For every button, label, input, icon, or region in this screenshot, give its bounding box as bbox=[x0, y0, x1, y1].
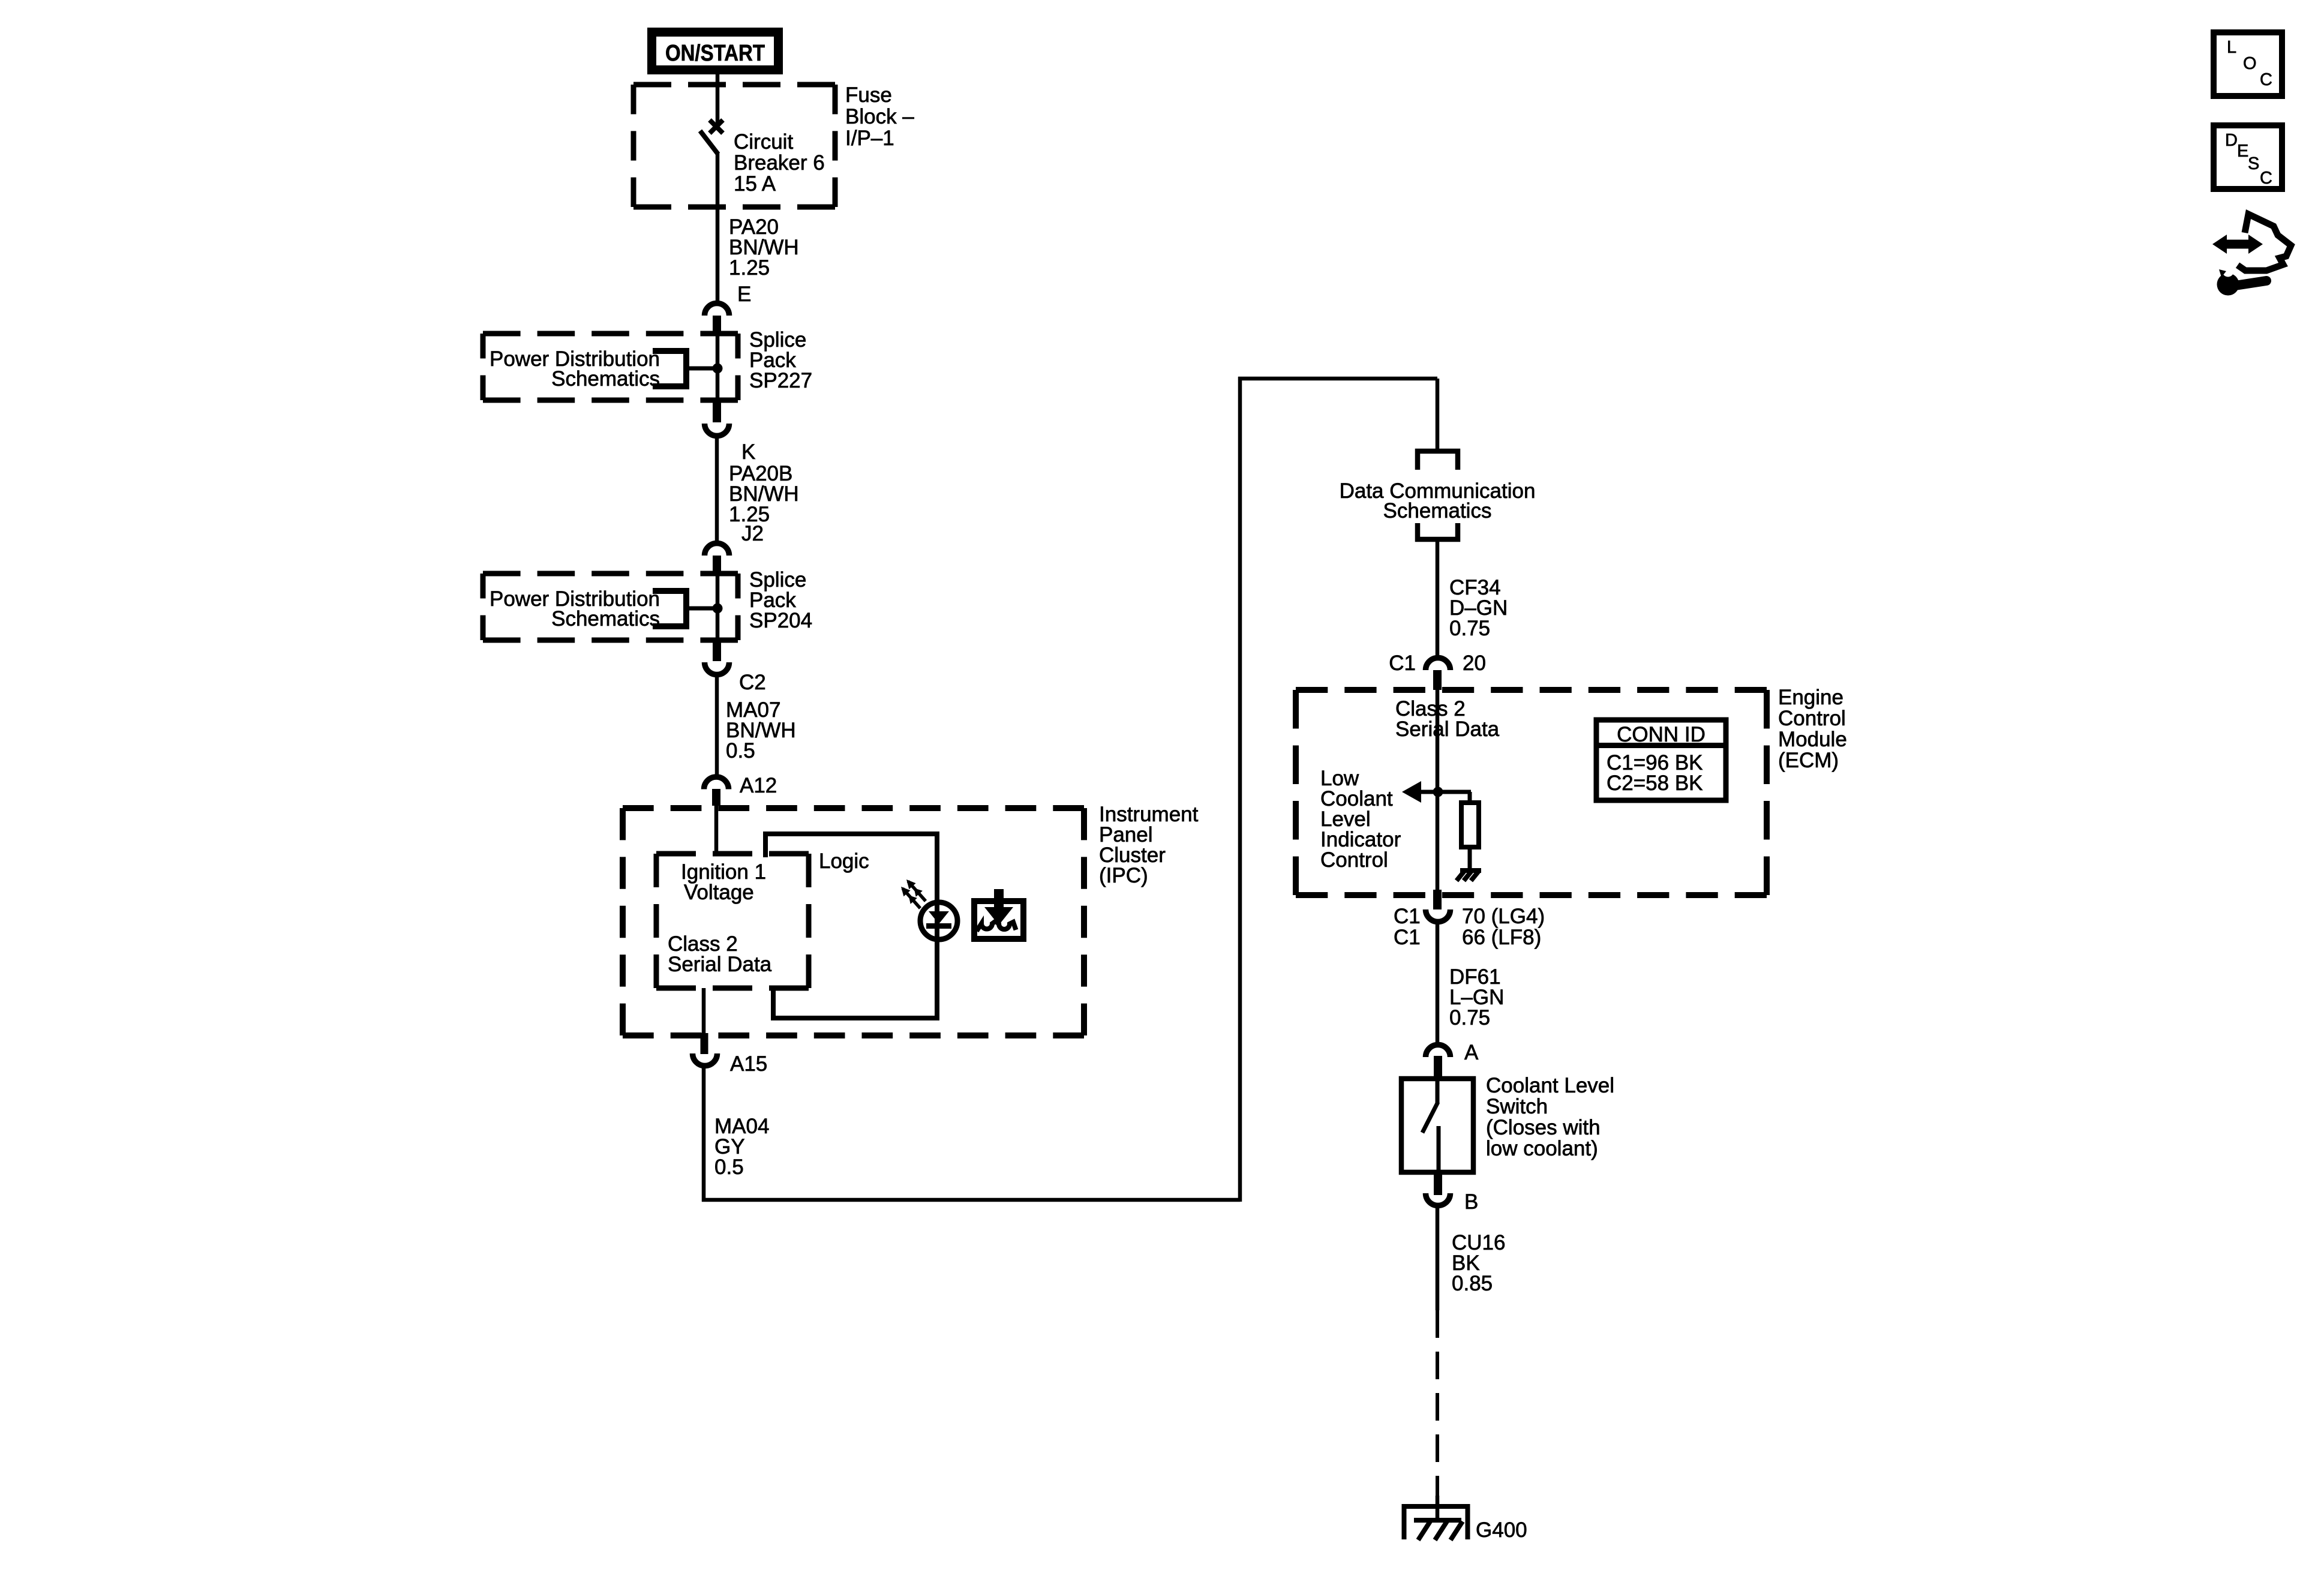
ECM internal control arrow bbox=[1402, 781, 1471, 803]
wire bottom horizontal run bbox=[702, 1198, 1240, 1202]
wire C2 to A12 bbox=[715, 677, 719, 776]
wire through SP204 bbox=[716, 574, 720, 640]
LED emission arrows bbox=[901, 879, 926, 908]
svg-text:C: C bbox=[2260, 169, 2272, 188]
fuse block dashed box bbox=[633, 85, 835, 207]
svg-text:Module: Module bbox=[1778, 728, 1847, 751]
label Data Communication Schematics bbox=[1340, 479, 1536, 523]
connector A15 arc bbox=[693, 1052, 768, 1076]
connector A12 arc bbox=[704, 774, 777, 797]
ground G400 hatches bbox=[1418, 1521, 1463, 1540]
svg-text:C2=58 BK: C2=58 BK bbox=[1607, 772, 1703, 795]
svg-text:(IPC): (IPC) bbox=[1099, 864, 1148, 887]
icon wrench bbox=[2217, 266, 2267, 296]
junction dot SP227 bbox=[713, 364, 723, 374]
connector A terminal bar bbox=[1434, 1056, 1442, 1077]
reference label Power Distribution Schematics (SP204) bbox=[490, 587, 660, 631]
circuit breaker label Circuit Breaker 6 15 A bbox=[734, 130, 825, 196]
wire label MA04 GY 0.5 bbox=[714, 1115, 769, 1179]
reference label Power Distribution Schematics (SP227) bbox=[490, 347, 660, 391]
svg-text:C1: C1 bbox=[1394, 926, 1421, 949]
wire K to J2 bbox=[715, 437, 719, 541]
ground G400 bar bbox=[1414, 1518, 1461, 1523]
label Splice Pack SP227 bbox=[749, 328, 812, 392]
label G400 bbox=[1476, 1518, 1527, 1542]
svg-text:Schematics: Schematics bbox=[1383, 499, 1492, 523]
engine control module ECM dashed box bbox=[1296, 690, 1767, 895]
svg-text:K: K bbox=[741, 440, 755, 464]
connector C1 pin 70 terminal bar bbox=[1433, 890, 1442, 909]
ECM internal wire vertical bbox=[1436, 690, 1440, 891]
connector J2 arc bbox=[705, 522, 764, 556]
connector E terminal bar bbox=[713, 316, 721, 335]
junction dot SP204 bbox=[713, 604, 723, 614]
svg-text:Fuse: Fuse bbox=[845, 83, 892, 107]
svg-text:Breaker 6: Breaker 6 bbox=[734, 151, 825, 175]
svg-text:(Closes with: (Closes with bbox=[1486, 1116, 1601, 1139]
LED indicator circle bbox=[920, 902, 957, 939]
connector C2 terminal bar bbox=[713, 640, 721, 661]
wire A12 into IPC inner box bbox=[714, 805, 719, 856]
switch position label ON/START box bbox=[652, 32, 779, 70]
pin function label Class 2 Serial Data (ECM) bbox=[1395, 697, 1500, 741]
wire right vertical riser bbox=[1238, 377, 1242, 1202]
svg-text:Circuit: Circuit bbox=[734, 130, 793, 154]
icon double arrow bbox=[2212, 235, 2263, 254]
off-page connector Data Communication Schematics bbox=[1418, 451, 1458, 539]
wire ECM to coolant level switch bbox=[1436, 923, 1440, 1044]
circuit breaker CB6 contact X bbox=[710, 120, 723, 133]
svg-text:G400: G400 bbox=[1476, 1518, 1527, 1542]
wire A15 down bbox=[702, 1068, 706, 1202]
label Splice Pack SP204 bbox=[749, 568, 812, 632]
LED cathode bar bbox=[926, 923, 951, 929]
ground G400 stem bbox=[1436, 1496, 1440, 1523]
label C1 C1 (ECM output pins) bbox=[1394, 905, 1421, 949]
bracket to SP227 splice bbox=[653, 348, 717, 389]
circuit breaker CB6 blade bbox=[700, 131, 718, 154]
wire label CF34 D-GN 0.75 bbox=[1449, 576, 1508, 640]
wire Class2 out of IPC inner box bbox=[702, 988, 706, 1034]
svg-text:1.25: 1.25 bbox=[729, 256, 770, 280]
svg-text:66 (LF8): 66 (LF8) bbox=[1462, 926, 1541, 949]
coolant level switch box bbox=[1401, 1079, 1473, 1172]
splice pack SP204 dashed box bbox=[483, 574, 738, 640]
svg-text:0.5: 0.5 bbox=[714, 1155, 744, 1179]
label Coolant Level Switch bbox=[1486, 1074, 1614, 1160]
svg-text:Control: Control bbox=[1778, 707, 1846, 730]
svg-text:Logic: Logic bbox=[819, 849, 869, 873]
svg-text:I/P–1: I/P–1 bbox=[845, 127, 894, 150]
wire B down solid bbox=[1436, 1208, 1440, 1310]
resistor to ground stub bbox=[1468, 847, 1472, 871]
svg-text:C1: C1 bbox=[1389, 652, 1416, 675]
telltale icon coolant wave bbox=[977, 921, 1016, 932]
label Logic bbox=[819, 849, 869, 873]
icon part outline bbox=[2238, 214, 2291, 271]
wire label MA07 BN/WH 0.5 bbox=[726, 698, 796, 763]
svg-text:15 A: 15 A bbox=[734, 172, 776, 196]
low coolant telltale icon box bbox=[974, 901, 1023, 939]
svg-text:SP227: SP227 bbox=[749, 369, 812, 392]
icon LOC box bbox=[2214, 32, 2282, 96]
wire label DF61 L-GN 0.75 bbox=[1449, 965, 1504, 1029]
svg-text:D: D bbox=[2225, 131, 2238, 150]
pin function label Low Coolant Level Indicator Control bbox=[1320, 767, 1401, 872]
label Engine Control Module (ECM) bbox=[1778, 686, 1847, 772]
label 70 (LG4) 66 (LF8) bbox=[1462, 905, 1545, 949]
connector J2 terminal bar bbox=[713, 556, 721, 575]
connector C2 arc bbox=[705, 662, 766, 694]
wire label PA20B BN/WH 1.25 bbox=[729, 462, 799, 526]
wire top horizontal run bbox=[1238, 377, 1437, 381]
bracket to SP204 splice bbox=[653, 588, 717, 629]
svg-text:SP204: SP204 bbox=[749, 609, 812, 632]
icon DESC box bbox=[2214, 125, 2282, 189]
telltale icon arrow bbox=[984, 889, 1013, 925]
svg-text:E: E bbox=[2237, 142, 2248, 161]
svg-text:C: C bbox=[2260, 70, 2272, 89]
IPC inner dashed box bbox=[656, 854, 809, 988]
svg-text:C1: C1 bbox=[1394, 905, 1421, 928]
connector A arc bbox=[1426, 1041, 1479, 1064]
svg-text:J2: J2 bbox=[741, 522, 764, 545]
connector A12 terminal bar bbox=[712, 789, 720, 806]
wire from ON/START to circuit breaker bbox=[716, 74, 720, 124]
svg-text:A12: A12 bbox=[740, 774, 777, 797]
svg-text:Block –: Block – bbox=[845, 105, 914, 128]
switch upper contact stub bbox=[1436, 1077, 1440, 1103]
label Instrument Panel Cluster (IPC) bbox=[1099, 803, 1199, 887]
fuse block label Fuse Block - I/P-1 bbox=[845, 83, 914, 150]
svg-text:Engine: Engine bbox=[1778, 686, 1843, 709]
wire B down dashed to ground bbox=[1436, 1310, 1439, 1498]
svg-text:A15: A15 bbox=[730, 1052, 767, 1076]
wire through SP227 bbox=[716, 334, 720, 400]
svg-text:20: 20 bbox=[1463, 652, 1486, 675]
splice pack SP227 dashed box bbox=[483, 334, 738, 400]
svg-text:(ECM): (ECM) bbox=[1778, 749, 1839, 772]
connector C1 pin 70 arc bbox=[1426, 909, 1451, 922]
svg-text:Switch: Switch bbox=[1486, 1095, 1548, 1118]
wire DCS to C1-20 bbox=[1436, 539, 1440, 658]
switch blade bbox=[1422, 1102, 1438, 1133]
connector E arc bbox=[705, 283, 752, 316]
svg-text:E: E bbox=[737, 283, 751, 306]
connector B terminal bar bbox=[1434, 1175, 1442, 1195]
connector C1 pin 20 terminal bar bbox=[1433, 670, 1442, 690]
ground G400 bracket bbox=[1404, 1506, 1468, 1539]
pin function label Class 2 Serial Data (IPC) bbox=[668, 932, 772, 976]
connector B arc bbox=[1426, 1190, 1479, 1214]
pull-up resistor bbox=[1461, 803, 1479, 847]
svg-text:O: O bbox=[2243, 54, 2257, 73]
svg-text:A: A bbox=[1464, 1041, 1479, 1064]
connector C1 pin 20 arc bbox=[1389, 652, 1486, 675]
svg-text:Serial Data: Serial Data bbox=[1395, 718, 1500, 741]
connector K terminal bar bbox=[713, 400, 721, 422]
connector K arc bbox=[705, 424, 756, 464]
LED diode triangle bbox=[929, 911, 949, 924]
ECM chassis ground bbox=[1457, 870, 1481, 881]
svg-text:Schematics: Schematics bbox=[551, 607, 660, 631]
logic block outline bbox=[765, 834, 937, 1018]
svg-text:low coolant): low coolant) bbox=[1486, 1137, 1598, 1160]
svg-text:ON/START: ON/START bbox=[665, 41, 765, 66]
svg-text:Coolant Level: Coolant Level bbox=[1486, 1074, 1614, 1097]
svg-text:0.75: 0.75 bbox=[1449, 1006, 1490, 1029]
wire CB6 to connector E bbox=[716, 152, 720, 301]
connector A15 terminal bar bbox=[701, 1033, 708, 1054]
wire label PA20 BN/WH 1.25 bbox=[729, 215, 799, 280]
svg-text:0.85: 0.85 bbox=[1452, 1272, 1493, 1295]
svg-text:B: B bbox=[1464, 1190, 1478, 1214]
svg-text:Voltage: Voltage bbox=[684, 881, 754, 904]
svg-text:CONN ID: CONN ID bbox=[1617, 723, 1706, 746]
svg-text:Control: Control bbox=[1320, 848, 1388, 872]
svg-text:S: S bbox=[2248, 154, 2259, 173]
switch lower contact stub bbox=[1437, 1126, 1441, 1175]
svg-text:0.5: 0.5 bbox=[726, 739, 755, 763]
instrument panel cluster IPC dashed box bbox=[623, 808, 1084, 1035]
wire down to data comm symbol bbox=[1436, 379, 1440, 451]
svg-text:C2: C2 bbox=[739, 671, 766, 694]
wire label CU16 BK 0.85 bbox=[1452, 1231, 1505, 1295]
ECM internal junction dot bbox=[1433, 787, 1443, 797]
pull-up resistor stub bbox=[1468, 792, 1472, 804]
pin function label Ignition 1 Voltage bbox=[681, 860, 766, 904]
svg-text:70 (LG4): 70 (LG4) bbox=[1462, 905, 1545, 928]
svg-text:0.75: 0.75 bbox=[1449, 617, 1490, 640]
svg-text:Serial Data: Serial Data bbox=[668, 953, 772, 976]
svg-text:L: L bbox=[2227, 38, 2236, 57]
svg-text:Schematics: Schematics bbox=[551, 367, 660, 391]
CONN ID table bbox=[1594, 720, 1728, 800]
